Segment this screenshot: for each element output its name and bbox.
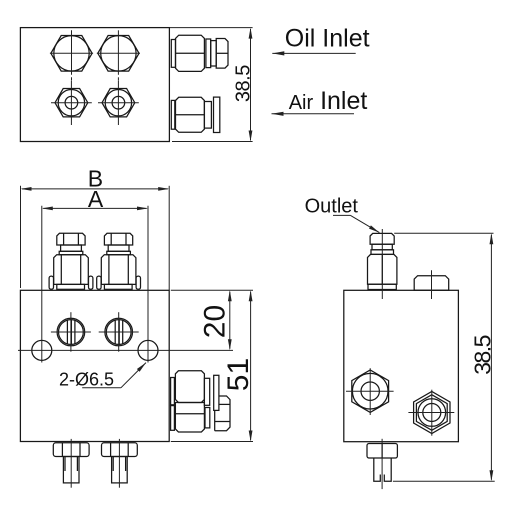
svg-text:51: 51 <box>222 358 255 391</box>
air inlet push-in fitting (top view) <box>171 97 220 132</box>
svg-text:Oil Inlet: Oil Inlet <box>285 25 370 53</box>
front view body block <box>20 290 169 441</box>
oil inlet compression fitting (top view) <box>171 35 228 71</box>
dimension line 51 <box>171 290 253 441</box>
large hex plug top-right <box>97 30 140 80</box>
svg-text:20: 20 <box>199 305 232 338</box>
dimension line 38.5 (side view) <box>393 233 495 481</box>
small hex nut top-right <box>98 81 139 126</box>
svg-text:38.5: 38.5 <box>470 335 496 374</box>
leader for Outlet <box>333 215 379 232</box>
leader for 2-diam 6.5 <box>82 363 146 388</box>
left threaded port (front view) <box>51 312 91 352</box>
large hex plug top-left <box>50 30 93 80</box>
svg-text:38.5: 38.5 <box>232 65 254 102</box>
lower-right hex fitting head-on (side view) <box>408 390 454 436</box>
oil inlet fitting (front view right side, behind) <box>171 396 230 432</box>
svg-text:Outlet: Outlet <box>305 196 359 218</box>
oil inlet leader arrow <box>272 51 355 55</box>
upper-left hex fitting head-on (side view) <box>346 368 394 415</box>
right threaded port (front view) <box>99 312 139 352</box>
outlet fitting (side view) <box>368 229 397 299</box>
right mounting hole <box>138 340 158 360</box>
right bottom bolt (front view) <box>102 439 138 488</box>
svg-text:A: A <box>88 186 104 212</box>
horizontal centerline through mounting holes <box>18 349 233 351</box>
left top fitting (front view) <box>49 233 93 289</box>
dimension line 38.5 (top view) <box>170 28 253 142</box>
air inlet fitting (front view right side) <box>171 371 219 411</box>
dimension line 20 <box>228 290 232 350</box>
small hex nut top-left <box>51 81 92 126</box>
svg-text:2-Ø6.5: 2-Ø6.5 <box>59 369 114 389</box>
left mounting hole <box>32 340 52 360</box>
side view body block <box>344 290 459 441</box>
dimension line B <box>21 186 170 290</box>
air inlet leader arrow <box>272 112 355 116</box>
right top fitting (front view) <box>97 233 141 289</box>
dimension line A <box>42 206 148 363</box>
svg-text:Air Inlet: Air Inlet <box>289 87 368 115</box>
left bottom bolt (front view) <box>53 439 89 488</box>
bottom push fitting (side view) <box>367 439 397 489</box>
hex nut on top right (side view) <box>414 270 449 299</box>
top view body block <box>20 28 169 142</box>
